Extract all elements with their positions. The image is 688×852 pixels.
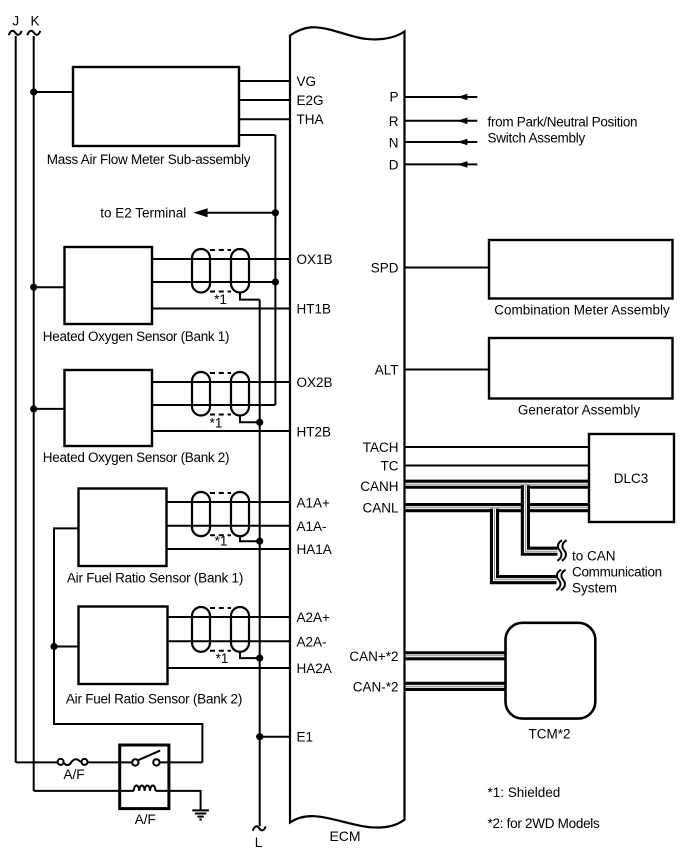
shield dashed top (AFS bank1) [210,492,231,494]
wire N from park/neutral switch [405,141,478,143]
svg-text:K: K [30,14,39,29]
svg-text:Switch Assembly: Switch Assembly [488,130,586,145]
wire relay switch out [160,761,203,763]
shield dashed top (AFS bank2) [210,607,231,609]
wire E1 [260,736,290,738]
CAN wire CAN+*2 to TCM [406,651,507,660]
Combination Meter Assembly box [489,240,673,299]
svg-text:A2A+: A2A+ [297,610,331,625]
CAN wire CAN-*2 to TCM [406,682,507,691]
wire OX2B [152,381,290,383]
svg-text:SPD: SPD [371,260,399,275]
svg-text:HT1B: HT1B [297,301,332,316]
svg-text:Air Fuel Ratio Sensor (Bank 2): Air Fuel Ratio Sensor (Bank 2) [66,692,242,707]
wire E2 bus [274,135,276,405]
arrow D [457,161,467,168]
svg-text:*1: *1 [216,651,229,666]
wire J to fuse [16,761,58,763]
junction shield bus AFS1 [256,538,263,545]
svg-text:DLC3: DLC3 [614,471,649,486]
wire A2A- [168,640,291,642]
svg-text:HA1A: HA1A [297,542,332,557]
svg-text:Combination Meter Assembly: Combination Meter Assembly [494,303,670,318]
wire HO2S2 signal return [152,404,275,406]
break symbol J [9,31,22,35]
svg-text:N: N [389,135,399,150]
junction K-MAF [30,88,37,95]
relay switch contact 2 [153,759,159,765]
arrow to E2 terminal [193,208,207,217]
DLC3 box [589,434,674,522]
wire K to MAF [34,91,73,93]
svg-text:P: P [389,89,398,104]
svg-text:E1: E1 [297,730,314,745]
wire P from park/neutral switch [405,96,478,98]
svg-text:*1: *1 [210,416,223,431]
svg-text:A/F: A/F [135,812,156,827]
junction HO2S1 return / E2 bus [272,278,279,285]
svg-text:E2G: E2G [297,93,324,108]
svg-text:to CAN: to CAN [572,549,616,564]
svg-text:A1A+: A1A+ [297,495,331,510]
ECM body [290,27,405,827]
shield oval 2 (AFS bank1) [231,492,249,536]
svg-text:A2A-: A2A- [297,634,327,649]
wire K to HO2S bank2 [34,408,65,410]
wire A1A- [167,525,291,527]
svg-text:VG: VG [297,74,317,89]
shield oval 1 (HO2S bank2) [192,372,210,416]
relay switch contact 1 [132,759,138,765]
break symbol K [27,31,40,35]
fuse A/F terminal 1 [58,759,64,765]
relay coil [134,786,156,791]
wire E2G [239,99,290,101]
svg-text:A/F: A/F [63,767,84,782]
wire HA1A [167,548,291,550]
arrow N [457,139,467,146]
svg-text:TACH: TACH [363,440,399,455]
shield oval 1 (AFS bank2) [192,607,210,652]
svg-text:L: L [255,835,263,850]
svg-text:TCM*2: TCM*2 [528,727,570,742]
junction E2 bus / arrow [272,209,279,216]
Generator Assembly box [489,338,673,399]
wire fuse to relay [88,761,133,763]
shield drain wire (AFS bank2) [240,652,260,658]
relay A/F box [120,745,169,809]
wire AF feed to bank2 [54,646,79,648]
svg-text:R: R [389,114,399,129]
shield dashed bottom (AFS bank1) [210,534,231,536]
svg-text:Mass Air Flow Meter Sub-assemb: Mass Air Flow Meter Sub-assembly [47,152,251,167]
svg-text:CANH: CANH [360,479,398,494]
svg-text:ALT: ALT [375,362,399,377]
CANL branch to CAN communication system [495,509,557,580]
shield drain wire (HO2S bank2) [240,416,260,423]
wire HO2S1 signal return [152,281,275,283]
svg-text:HA2A: HA2A [297,661,332,676]
junction K-HO2S1 [30,284,37,291]
junction shield bus AFS2 [256,655,263,662]
svg-text:*1: *1 [215,534,228,549]
relay switch blade [138,751,160,761]
wire A2A+ [168,616,291,618]
wire HT2B [152,430,290,432]
break symbol CANH branch [557,540,566,560]
shield oval 2 (AFS bank2) [231,607,249,652]
wire THA [239,118,290,120]
shield dashed bottom (AFS bank2) [210,650,231,652]
ground symbol [192,810,209,819]
svg-text:TC: TC [381,458,399,473]
TCM*2 box [506,623,596,719]
svg-text:Heated Oxygen Sensor (Bank 1): Heated Oxygen Sensor (Bank 1) [43,329,229,344]
svg-text:Air Fuel Ratio Sensor (Bank 1): Air Fuel Ratio Sensor (Bank 1) [67,571,243,586]
svg-text:HT2B: HT2B [297,424,332,439]
svg-text:Generator Assembly: Generator Assembly [518,403,641,418]
Air Fuel Ratio Sensor (Bank 1) box [79,489,167,567]
svg-text:to E2 Terminal: to E2 Terminal [100,205,186,220]
junction K-HO2S2 [30,405,37,412]
fuse A/F element [64,759,82,765]
junction shield bus E1 [256,733,263,740]
svg-text:THA: THA [297,112,324,127]
svg-text:from Park/Neutral Position: from Park/Neutral Position [488,114,638,129]
shield dashed bottom (HO2S bank1) [210,291,231,293]
wire VG [239,80,290,82]
shield oval 1 (HO2S bank1) [192,249,210,293]
Heated Oxygen Sensor (Bank 1) box [65,247,153,324]
wire J rail [15,36,17,762]
wire K to relay coil [34,790,134,792]
wire D from park/neutral switch [405,163,478,165]
shield dashed top (HO2S bank2) [210,372,231,374]
shield dashed top (HO2S bank1) [210,249,231,251]
svg-text:J: J [12,14,19,29]
wire OX1B [152,258,290,260]
svg-text:A1A-: A1A- [297,519,327,534]
shield oval 2 (HO2S bank1) [231,249,249,293]
wire SPD [405,267,490,269]
shield drain wire (AFS bank1) [240,536,260,541]
shield oval 2 (HO2S bank2) [231,372,249,416]
svg-text:OX2B: OX2B [297,375,333,390]
break symbol CANL branch [556,570,565,590]
wire HA2A [168,667,291,669]
shield dashed bottom (HO2S bank2) [210,414,231,416]
wire ALT [405,369,490,371]
CAN wire CANH (twisted pair) to DLC3 [406,480,589,489]
fuse A/F terminal 2 [82,759,88,765]
break symbol L [253,826,266,830]
svg-text:Heated Oxygen Sensor (Bank 2): Heated Oxygen Sensor (Bank 2) [43,450,229,465]
wire TACH [405,446,590,448]
wire AF power feed [54,528,202,762]
Air Fuel Ratio Sensor (Bank 2) box [79,607,168,685]
wire A1A+ [167,501,291,503]
wire K to HO2S bank1 [34,286,65,288]
arrow R [457,118,467,125]
wire relay coil to ground [156,791,201,810]
wire MAF ground to E2 bus [239,134,275,136]
shield drain wire (HO2S bank1) [240,293,260,300]
junction AF feed bank2 [50,643,57,650]
svg-text:*1: Shielded: *1: Shielded [488,785,561,800]
wire K rail [33,36,35,791]
junction shield bus HO2S2 [256,419,263,426]
svg-text:D: D [389,157,399,172]
wire to E2 terminal [207,212,275,214]
CAN wire CANL (twisted pair) to DLC3 [406,503,589,512]
wire shield bus [259,300,261,826]
wire R from park/neutral switch [405,120,478,122]
svg-text:Communication: Communication [572,565,662,580]
svg-text:*1: *1 [214,292,227,307]
Mass Air Flow Meter box [73,67,239,146]
svg-text:ECM: ECM [329,828,360,844]
arrow P [457,94,467,101]
svg-text:System: System [572,581,617,596]
Heated Oxygen Sensor (Bank 2) box [65,370,153,446]
svg-text:*2: for 2WD Models: *2: for 2WD Models [488,816,601,831]
CANH branch to CAN communication system [525,485,557,551]
svg-text:CANL: CANL [362,501,399,516]
svg-text:OX1B: OX1B [297,252,333,267]
wire TC [405,465,590,467]
wire HT1B [152,308,290,310]
svg-text:CAN+*2: CAN+*2 [349,649,398,664]
shield oval 1 (AFS bank1) [192,492,210,536]
svg-text:CAN-*2: CAN-*2 [353,679,399,694]
